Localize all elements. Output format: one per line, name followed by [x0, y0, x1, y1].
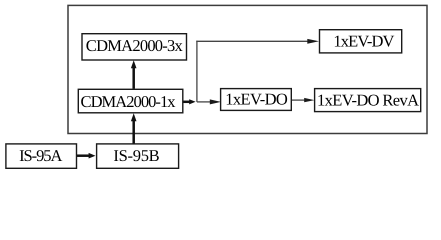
- svg-text:IS-95A: IS-95A: [19, 146, 62, 165]
- svg-text:1xEV-DO: 1xEV-DO: [225, 90, 288, 109]
- svg-text:1xEV-DO RevA: 1xEV-DO RevA: [317, 90, 419, 109]
- svg-text:CDMA2000-1x: CDMA2000-1x: [81, 92, 177, 111]
- svg-text:IS-95B: IS-95B: [113, 146, 159, 165]
- svg-text:CDMA2000-3x: CDMA2000-3x: [86, 36, 184, 55]
- svg-text:1xEV-DV: 1xEV-DV: [333, 32, 394, 51]
